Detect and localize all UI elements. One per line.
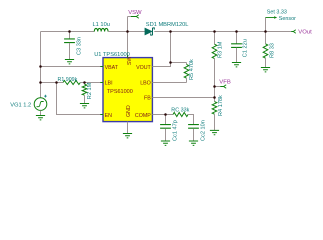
ground (C3) <box>65 60 74 64</box>
voltage source VG1 <box>34 95 47 111</box>
ground (R6) <box>261 68 270 72</box>
svg-text:SD1 MBRM120L: SD1 MBRM120L <box>146 22 189 28</box>
wire: VOUT pin to output rail <box>152 32 170 67</box>
node: VFB flag junction <box>213 85 216 88</box>
ground (U1 GND) <box>123 134 132 138</box>
resistor R2 <box>84 83 86 85</box>
node: VBAT tap on battery rail <box>39 65 42 68</box>
ground (R2) <box>80 104 89 108</box>
node: LBI tap on battery rail <box>39 81 42 84</box>
svg-text:R8 33: R8 33 <box>269 43 275 58</box>
node: C3 tap on input rail <box>68 30 71 33</box>
schottky diode SD1 <box>145 28 155 35</box>
svg-text:VOut: VOut <box>298 30 312 36</box>
node: EN tap <box>55 81 58 84</box>
wire: top rail from battery corner to L1 <box>41 31 95 33</box>
svg-text:R1 909k: R1 909k <box>58 77 78 83</box>
node: sensor/R6 tap <box>264 30 267 33</box>
net flag VFB <box>215 86 221 88</box>
net flag VOut <box>291 30 296 33</box>
resistor R1 <box>63 81 80 85</box>
capacitor C1 <box>236 32 238 44</box>
wire: VBAT pin wire <box>41 66 104 68</box>
resistor R6 <box>265 32 267 44</box>
wire: EN drop and run to pin <box>57 83 104 115</box>
node: R3 tap <box>213 30 216 33</box>
svg-text:R2 1M: R2 1M <box>87 82 93 99</box>
op-amp/IC U1 TPS61000 body <box>103 58 152 122</box>
ground (R4) <box>210 130 219 134</box>
wire: R5 top branch <box>171 62 187 64</box>
svg-text:VSW: VSW <box>128 10 142 16</box>
pin stubs (green) of U1 <box>100 55 155 124</box>
svg-text:Sensor: Sensor <box>279 16 296 22</box>
wire: GND pin to ground <box>127 122 129 134</box>
ground (Cc1) <box>161 141 170 145</box>
node: FB wire junction <box>213 96 216 99</box>
svg-text:VG1 1.2: VG1 1.2 <box>10 103 31 109</box>
svg-text:L1 10u: L1 10u <box>93 22 110 28</box>
node: comp node junction <box>164 113 167 116</box>
node: C1 tap <box>235 30 238 33</box>
wire: sensor tap riser <box>265 18 267 32</box>
resistor R3 <box>214 32 216 45</box>
wire: COMP pin wire <box>152 114 173 116</box>
svg-text:VFB: VFB <box>219 79 231 85</box>
svg-text:LBO: LBO <box>140 81 151 87</box>
wire: FB node vertical <box>214 59 216 102</box>
wire: L1 to diode anode (SW node) <box>108 31 145 33</box>
wire: VG1 to ground <box>40 111 42 116</box>
svg-text:R4 178k: R4 178k <box>218 95 224 116</box>
wire: LBI rail right segment <box>80 82 103 84</box>
wire: SW junction up to VSW flag <box>127 17 129 32</box>
svg-text:Cc1 47p: Cc1 47p <box>173 120 179 141</box>
svg-text:C3 33n: C3 33n <box>77 37 83 55</box>
svg-text:LBI: LBI <box>105 81 113 87</box>
resistor R4 <box>212 102 217 115</box>
svg-text:R3 1M: R3 1M <box>218 41 224 58</box>
ground (VG1) <box>36 116 45 120</box>
svg-text:C1 22u: C1 22u <box>242 39 248 57</box>
wire: FB pin wire <box>152 97 214 99</box>
wire: battery positive rail (vertical, left) <box>40 32 42 98</box>
capacitor Cc1 <box>165 115 167 125</box>
node: VOUT pin riser junction <box>169 30 172 33</box>
svg-text:TPS61000: TPS61000 <box>107 89 133 95</box>
svg-text:R5 470k: R5 470k <box>189 59 195 80</box>
inductor L1 <box>94 28 108 31</box>
svg-text:VBAT: VBAT <box>105 65 119 71</box>
capacitor Cc2 <box>188 125 199 129</box>
svg-text:VOUT: VOUT <box>136 65 151 71</box>
node: R5 pull-up tap <box>169 61 172 64</box>
svg-text:COMP: COMP <box>135 113 151 119</box>
node: SW junction <box>126 30 129 33</box>
ground (C1) <box>232 63 241 67</box>
svg-text:U1 TPS61000: U1 TPS61000 <box>94 52 130 58</box>
svg-text:FB: FB <box>144 96 151 102</box>
wire: LBO pin wire <box>152 82 186 84</box>
net flag VSW <box>128 16 131 18</box>
wire: RC to Cc2 <box>188 115 194 125</box>
svg-text:RC 33k: RC 33k <box>171 107 189 113</box>
capacitor C3 <box>69 32 71 39</box>
ground (Cc2) <box>189 141 198 145</box>
svg-text:SW: SW <box>127 56 133 65</box>
node: R2 tap <box>83 81 86 84</box>
wire: LBI rail left segment <box>41 82 64 84</box>
svg-text:EN: EN <box>105 113 113 119</box>
wire: output rail from diode cathode to VOut flag <box>154 31 291 33</box>
svg-text:Set 3.33: Set 3.33 <box>267 10 287 16</box>
resistor R5 <box>186 63 188 65</box>
resistor RC <box>173 113 188 117</box>
wire: SW junction down to U1 SW pin <box>127 32 129 58</box>
svg-text:Cc2 10n: Cc2 10n <box>200 120 206 141</box>
output arrow to Sensor <box>266 17 275 19</box>
svg-text:GND: GND <box>126 105 132 117</box>
